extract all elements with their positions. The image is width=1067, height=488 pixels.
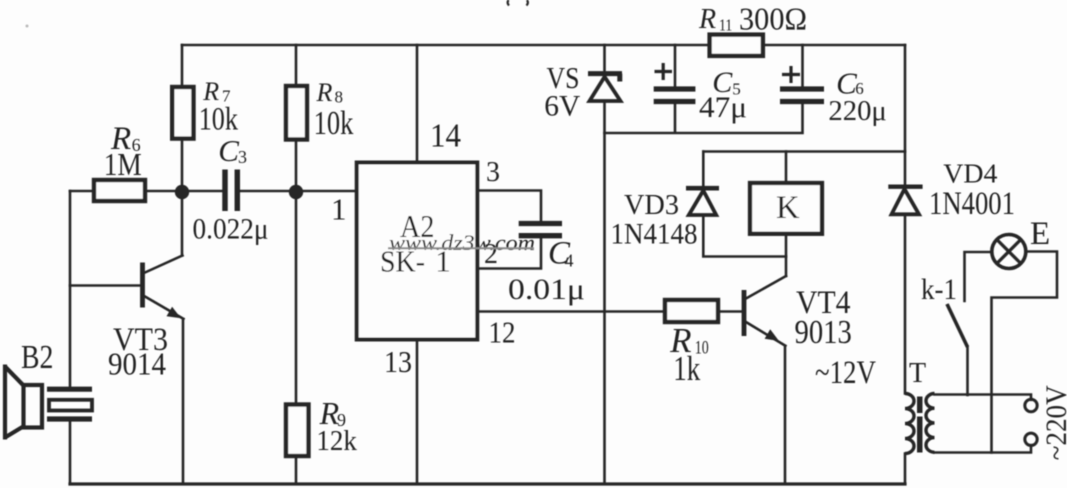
svg-text:1M: 1M — [104, 146, 142, 182]
svg-text:3: 3 — [486, 157, 500, 188]
svg-text:6V: 6V — [544, 89, 580, 122]
svg-text:VD3: VD3 — [624, 190, 679, 221]
svg-text:T: T — [909, 358, 926, 389]
svg-text:K: K — [776, 190, 800, 226]
svg-text:B2: B2 — [21, 339, 53, 376]
svg-text:13: 13 — [384, 344, 412, 379]
svg-text:8: 8 — [335, 88, 344, 107]
svg-text:14: 14 — [430, 118, 461, 155]
svg-text:1N4148: 1N4148 — [611, 219, 698, 251]
svg-text:0.01μ: 0.01μ — [508, 273, 585, 306]
svg-text:~12V: ~12V — [815, 355, 876, 391]
svg-text:12: 12 — [489, 315, 516, 350]
svg-text:~220V: ~220V — [1041, 385, 1067, 460]
svg-text:4: 4 — [565, 251, 574, 271]
svg-text:1N4001: 1N4001 — [929, 186, 1015, 222]
svg-text:47μ: 47μ — [699, 91, 747, 124]
svg-text:10k: 10k — [314, 105, 354, 142]
svg-text:9013: 9013 — [795, 314, 852, 351]
svg-text:12k: 12k — [316, 425, 357, 457]
svg-text:9014: 9014 — [108, 346, 166, 382]
svg-text:C: C — [218, 133, 239, 168]
svg-text:R: R — [316, 78, 333, 107]
svg-text:1: 1 — [331, 192, 347, 227]
svg-text:0.022μ: 0.022μ — [193, 213, 269, 246]
svg-text:E: E — [1030, 216, 1050, 252]
svg-text:R: R — [698, 4, 716, 35]
svg-text:1k: 1k — [673, 349, 700, 388]
svg-text:VD4: VD4 — [943, 157, 997, 188]
svg-text:300Ω: 300Ω — [739, 0, 807, 36]
svg-text:k-1: k-1 — [921, 273, 957, 306]
svg-text:220μ: 220μ — [828, 95, 886, 127]
svg-text:www.dz3w.com: www.dz3w.com — [389, 230, 535, 255]
svg-text:3: 3 — [238, 147, 247, 167]
svg-text:11: 11 — [719, 16, 732, 35]
